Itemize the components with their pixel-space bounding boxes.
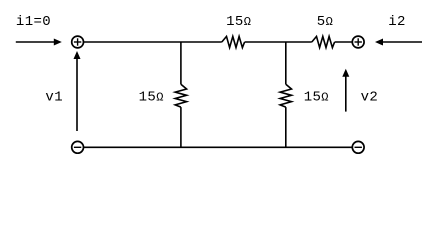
svg-text:5Ω: 5Ω xyxy=(317,14,333,30)
svg-text:i1=0: i1=0 xyxy=(16,14,51,30)
svg-text:i2: i2 xyxy=(388,14,406,30)
svg-text:15Ω: 15Ω xyxy=(226,14,251,30)
svg-text:v2: v2 xyxy=(361,90,379,106)
svg-text:v1: v1 xyxy=(45,90,63,106)
svg-text:15Ω: 15Ω xyxy=(139,89,164,105)
svg-text:15Ω: 15Ω xyxy=(304,89,329,105)
